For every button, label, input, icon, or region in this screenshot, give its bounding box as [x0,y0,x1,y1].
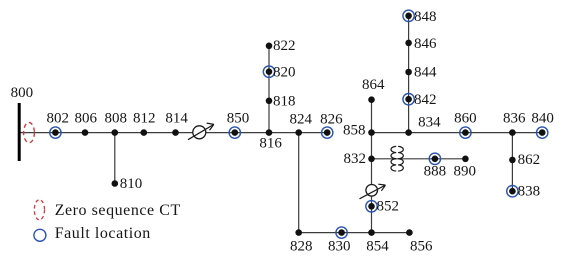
wire 808 to 810 [114,133,116,184]
fault node 888 [429,153,440,164]
svg-text:Fault location: Fault location [55,225,151,242]
svg-text:Zero sequence CT: Zero sequence CT [55,202,181,219]
node 836 [509,129,516,136]
fault node 852 [366,201,377,212]
fault node 802 [50,127,61,138]
node 828 [295,229,302,236]
svg-text:862: 862 [518,152,541,168]
svg-text:812: 812 [133,111,156,127]
svg-text:808: 808 [105,111,128,127]
legend fault location symbol [34,229,46,241]
node 864 [368,96,375,103]
svg-text:856: 856 [410,238,433,254]
fault node 826 [322,127,333,138]
svg-text:850: 850 [227,111,250,127]
node 862 [509,157,516,164]
fault node 838 [507,186,518,197]
node 844 [405,69,412,76]
svg-text:816: 816 [259,135,282,151]
wire 848 to 834 [408,16,410,133]
svg-text:818: 818 [273,94,296,110]
fault node 830 [336,227,347,238]
node 856 [406,229,413,236]
wire 832 to 890 [372,158,466,160]
svg-text:848: 848 [414,9,437,25]
node 854 [368,229,375,236]
svg-text:806: 806 [74,111,97,127]
svg-text:800: 800 [11,85,34,101]
svg-text:810: 810 [120,176,143,192]
svg-text:832: 832 [344,151,367,167]
voltage regulator 814-850 [188,123,214,140]
node 824 [295,129,302,136]
fault node 850 [229,127,240,138]
svg-text:860: 860 [454,110,477,126]
node 810 [112,180,119,187]
voltage regulator 832-852 [360,184,386,199]
transformer 832-888 [391,146,403,171]
fault node 848 [403,10,414,21]
svg-text:826: 826 [320,111,343,127]
svg-text:822: 822 [273,38,296,54]
node 832 [368,156,375,163]
node 806 [82,129,89,136]
wire 864 to 854 [371,100,373,233]
fault node 860 [460,127,471,138]
svg-text:890: 890 [453,164,476,180]
svg-text:852: 852 [377,199,400,215]
wire 836 to 838 [511,133,513,192]
svg-text:842: 842 [414,92,437,108]
svg-text:820: 820 [273,65,296,81]
node 812 [141,129,148,136]
wire 816 to 822 [268,46,270,133]
svg-text:840: 840 [531,110,554,126]
node 822 [266,43,273,50]
wire main left (800 to 826) [19,132,327,134]
svg-text:854: 854 [366,238,389,254]
node 834 [405,129,412,136]
svg-text:830: 830 [328,238,351,254]
svg-text:888: 888 [424,164,447,180]
svg-text:824: 824 [290,111,313,127]
svg-text:834: 834 [418,115,441,131]
svg-text:814: 814 [165,111,188,127]
svg-text:838: 838 [518,184,541,200]
source bus 800 [18,103,21,161]
wire bottom (828 to 856) [299,232,410,234]
node 808 [112,129,119,136]
svg-text:864: 864 [362,77,385,93]
node 816 [266,129,273,136]
legend zero sequence CT symbol [34,200,44,220]
wire 824 to 828 [298,133,300,233]
svg-text:836: 836 [503,110,526,126]
svg-text:844: 844 [414,65,437,81]
fault node 842 [403,94,414,105]
svg-text:828: 828 [290,238,313,254]
wire main right (858 to 840) [372,132,543,134]
svg-text:858: 858 [343,123,366,139]
node 858 [368,129,375,136]
svg-text:846: 846 [414,36,437,52]
fault node 820 [263,66,274,77]
node 818 [266,98,273,105]
node 814 [172,129,179,136]
node 846 [405,40,412,47]
svg-text:802: 802 [47,111,70,127]
zero sequence CT on feeder [24,123,35,143]
node 890 [462,156,469,163]
fault node 840 [537,127,548,138]
